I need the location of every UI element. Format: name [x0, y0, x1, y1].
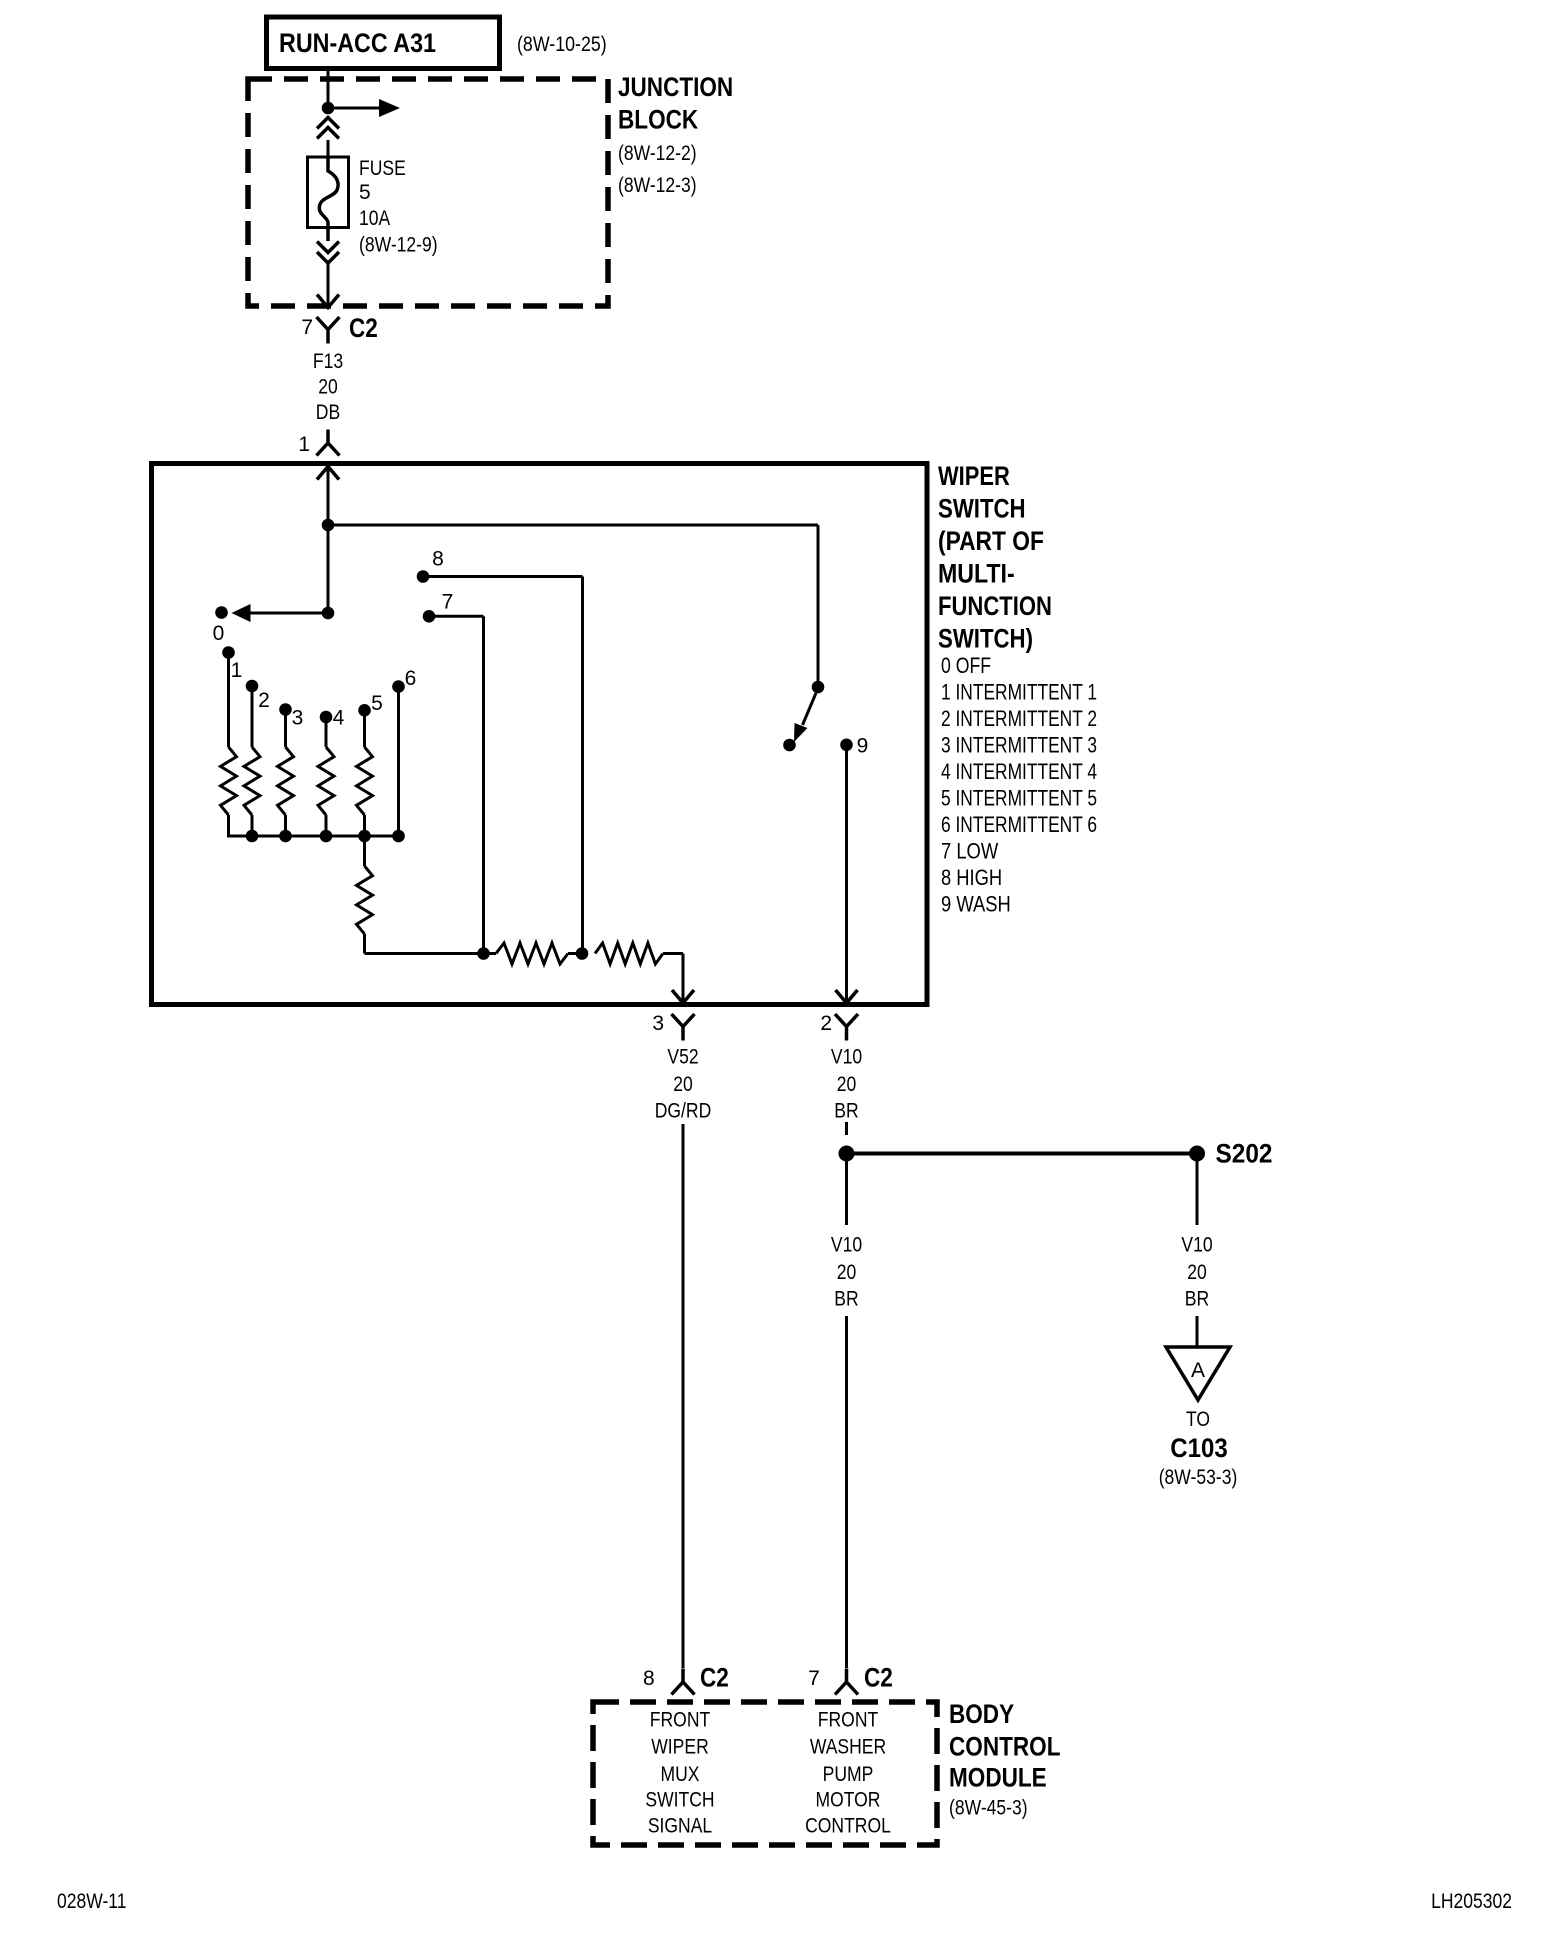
svg-text:2 INTERMITTENT 2: 2 INTERMITTENT 2 — [941, 706, 1097, 731]
svg-text:10A: 10A — [359, 207, 390, 230]
svg-text:BODY: BODY — [949, 1699, 1014, 1729]
svg-text:5 INTERMITTENT 5: 5 INTERMITTENT 5 — [941, 786, 1097, 811]
svg-text:20: 20 — [673, 1073, 693, 1096]
svg-text:FRONT: FRONT — [818, 1709, 879, 1732]
svg-text:2: 2 — [258, 689, 270, 712]
svg-text:(8W-45-3): (8W-45-3) — [949, 1797, 1028, 1820]
svg-text:BR: BR — [834, 1100, 858, 1123]
wire: contact 7 down to low-speed tap — [482, 616, 485, 953]
wire: splice S202 tie — [847, 1152, 1198, 1156]
wire: contact 6 to bus — [397, 692, 400, 836]
connector arrow into wiper switch — [317, 467, 339, 480]
svg-text:V10: V10 — [831, 1046, 862, 1069]
svg-text:6: 6 — [405, 667, 417, 690]
svg-text:F13: F13 — [313, 350, 343, 373]
node: junction block feed — [322, 102, 335, 115]
svg-text:(8W-12-3): (8W-12-3) — [618, 174, 697, 197]
wire: feed across to wash switch — [328, 524, 818, 527]
svg-text:8: 8 — [432, 548, 444, 571]
connector C2 male arrow — [317, 295, 339, 308]
wire: R3 to bus — [284, 815, 287, 836]
wire: contact 5 to resistor R5 — [363, 716, 366, 747]
svg-text:20: 20 — [1187, 1261, 1207, 1284]
wire: R1 to bus — [227, 815, 230, 838]
wire: contact 8 down to high-speed tap — [581, 577, 584, 954]
svg-text:LH205302: LH205302 — [1431, 1890, 1512, 1913]
contact 5 — [358, 704, 371, 717]
svg-text:JUNCTION: JUNCTION — [618, 72, 733, 102]
svg-text:1 INTERMITTENT 1: 1 INTERMITTENT 1 — [941, 680, 1097, 705]
wire: contact 4 to resistor R4 — [325, 723, 328, 747]
wire: bus down to resistor R6 — [363, 836, 366, 866]
node: low-speed tap — [477, 947, 490, 960]
resistor R7 (low) — [496, 943, 568, 964]
svg-text:(8W-10-25): (8W-10-25) — [517, 33, 607, 56]
svg-text:4: 4 — [333, 707, 345, 730]
svg-text:1: 1 — [231, 659, 243, 682]
wire V52: to BCM pin 8 — [682, 1124, 685, 1668]
svg-text:SIGNAL: SIGNAL — [648, 1815, 712, 1838]
svg-text:3: 3 — [652, 1012, 664, 1035]
svg-text:MUX: MUX — [661, 1763, 700, 1786]
resistor R5 (intermittent 5) — [357, 747, 373, 815]
junction block dashed box — [248, 79, 608, 306]
resistor R1 (intermittent 1) — [221, 747, 237, 815]
splice S202 (right node) — [1189, 1146, 1205, 1162]
wire: to fuse — [327, 140, 330, 158]
dashed wire stub to splice — [845, 1122, 848, 1135]
power feed box RUN-ACC A31 — [267, 17, 500, 69]
wire: contact 2 to resistor R2 — [251, 692, 254, 747]
wire: fuse to connector C2 — [327, 264, 330, 308]
svg-text:6 INTERMITTENT 6: 6 INTERMITTENT 6 — [941, 812, 1097, 837]
svg-text:(PART OF: (PART OF — [938, 526, 1044, 556]
contact 6 — [392, 680, 405, 693]
svg-text:DB: DB — [316, 401, 340, 424]
contact 0 (OFF) — [215, 606, 228, 619]
connector chevrons below fuse — [317, 242, 339, 253]
wire: contact 3 to resistor R3 — [284, 715, 287, 747]
wire: pin 1 down to feed node — [327, 466, 330, 522]
svg-text:9: 9 — [857, 735, 869, 758]
svg-text:PUMP: PUMP — [823, 1763, 874, 1786]
resistor R6 (series) — [357, 866, 373, 934]
contact 7 (LOW) — [423, 610, 436, 623]
svg-text:C2: C2 — [349, 313, 378, 343]
svg-text:FUNCTION: FUNCTION — [938, 591, 1052, 621]
svg-text:2: 2 — [820, 1012, 832, 1035]
svg-text:1: 1 — [298, 433, 310, 456]
wiper arm arrow pointing at position 0 — [250, 612, 328, 615]
svg-text:20: 20 — [837, 1261, 857, 1284]
svg-text:DG/RD: DG/RD — [655, 1100, 712, 1123]
svg-text:7 LOW: 7 LOW — [941, 839, 998, 864]
svg-text:9 WASH: 9 WASH — [941, 892, 1011, 917]
svg-text:BR: BR — [1185, 1288, 1209, 1311]
contact 8 (HIGH) — [417, 570, 430, 583]
svg-text:3: 3 — [292, 707, 304, 730]
node: bus junction 4 — [320, 830, 333, 843]
svg-text:5: 5 — [359, 181, 371, 204]
resistor R3 (intermittent 3) — [278, 747, 294, 815]
svg-text:TO: TO — [1186, 1408, 1210, 1431]
connector chevrons above fuse — [317, 118, 339, 129]
node: wash switch arm pivot — [812, 681, 825, 694]
wash switch arm (momentary contact) — [803, 693, 817, 725]
svg-text:MODULE: MODULE — [949, 1763, 1047, 1793]
svg-text:BR: BR — [834, 1288, 858, 1311]
node: bus junction 3 — [279, 830, 292, 843]
wire: R7 to high-speed tap — [568, 952, 582, 955]
svg-text:3 INTERMITTENT 3: 3 INTERMITTENT 3 — [941, 733, 1097, 758]
svg-text:(8W-12-9): (8W-12-9) — [359, 234, 438, 257]
svg-text:7: 7 — [442, 591, 454, 614]
svg-text:(8W-53-3): (8W-53-3) — [1159, 1466, 1238, 1489]
node: switch feed junction — [322, 519, 335, 532]
wiper switch box — [152, 464, 928, 1005]
wire V10: to BCM pin 7 — [845, 1316, 848, 1668]
off-page connector A — [1166, 1347, 1230, 1400]
svg-text:SWITCH: SWITCH — [938, 494, 1026, 524]
contact 9 (WASH) — [840, 739, 853, 752]
contact 1 — [222, 646, 235, 659]
svg-text:0 OFF: 0 OFF — [941, 653, 991, 678]
svg-text:0: 0 — [213, 622, 225, 645]
node: bus junction 6 — [392, 830, 405, 843]
wire: R6 to output run — [363, 934, 366, 954]
svg-text:C103: C103 — [1170, 1433, 1228, 1463]
resistor R8 (high) — [595, 943, 663, 964]
svg-text:A: A — [1191, 1359, 1205, 1382]
node: wiper arm junction — [322, 607, 335, 620]
svg-text:7: 7 — [808, 1667, 820, 1690]
resistor bus — [227, 835, 400, 838]
svg-text:4 INTERMITTENT 4: 4 INTERMITTENT 4 — [941, 759, 1097, 784]
wire: R5 to bus — [363, 815, 366, 836]
svg-text:WIPER: WIPER — [938, 461, 1010, 491]
node: high-speed tap — [576, 947, 589, 960]
wire: RUN-ACC A31 to junction block feed node — [327, 68, 330, 104]
svg-text:8 HIGH: 8 HIGH — [941, 865, 1002, 890]
svg-text:8: 8 — [643, 1667, 655, 1690]
wire: R2 to bus — [251, 815, 254, 836]
svg-text:WIPER: WIPER — [651, 1736, 709, 1759]
wire: R8 to output pin 3 — [663, 952, 683, 955]
wire: output run to node A — [365, 952, 497, 955]
body control module dashed box — [593, 1702, 937, 1845]
svg-text:7: 7 — [301, 316, 313, 339]
svg-text:RUN-ACC A31: RUN-ACC A31 — [279, 28, 436, 58]
svg-text:028W-11: 028W-11 — [57, 1890, 127, 1913]
node: wash contact — [783, 739, 796, 752]
svg-text:20: 20 — [837, 1073, 857, 1096]
svg-text:MOTOR: MOTOR — [816, 1789, 881, 1812]
wire: to off-page connector A — [1196, 1316, 1199, 1347]
wire: contact 1 to resistor R1 — [227, 658, 230, 747]
fuse 5 10A — [308, 157, 349, 228]
wire: contact 8 across — [423, 575, 583, 578]
wire: down to wash switch arm pivot — [817, 525, 820, 681]
svg-text:C2: C2 — [864, 1663, 893, 1693]
svg-text:CONTROL: CONTROL — [949, 1732, 1061, 1762]
svg-text:SWITCH): SWITCH) — [938, 624, 1033, 654]
svg-text:MULTI-: MULTI- — [938, 559, 1015, 589]
wire V10: S202 down to C103 — [1196, 1161, 1199, 1225]
arrow: feed continues right — [334, 107, 381, 110]
svg-text:V10: V10 — [1181, 1234, 1212, 1257]
svg-text:WASHER: WASHER — [810, 1736, 886, 1759]
svg-text:(8W-12-2): (8W-12-2) — [618, 142, 697, 165]
wire: contact 7 across — [429, 615, 484, 618]
resistor R4 (intermittent 4) — [318, 747, 334, 815]
svg-text:CONTROL: CONTROL — [805, 1815, 891, 1838]
svg-text:V10: V10 — [831, 1234, 862, 1257]
svg-text:V52: V52 — [667, 1046, 698, 1069]
svg-text:S202: S202 — [1216, 1139, 1273, 1169]
contact 2 — [246, 680, 259, 693]
svg-text:BLOCK: BLOCK — [618, 105, 699, 135]
resistor R2 (intermittent 2) — [244, 747, 260, 815]
contact 3 — [279, 703, 292, 716]
svg-text:5: 5 — [371, 692, 383, 715]
splice S202 (left node) — [839, 1146, 855, 1162]
wire: R4 to bus — [325, 815, 328, 836]
node: bus junction 2 — [246, 830, 259, 843]
svg-text:20: 20 — [318, 376, 338, 399]
wire: feed node down to wiper arm node — [327, 525, 330, 610]
wire V10: splice down — [845, 1154, 848, 1226]
svg-text:FUSE: FUSE — [359, 157, 406, 180]
connector arrow at pin 3 — [672, 990, 694, 1003]
wire: down to pin 3 — [682, 954, 685, 1002]
svg-text:C2: C2 — [700, 1663, 729, 1693]
wire: wash contact 9 down to pin 2 — [845, 751, 848, 1001]
svg-text:FRONT: FRONT — [650, 1709, 711, 1732]
node: bus junction 5 — [358, 830, 371, 843]
svg-text:SWITCH: SWITCH — [645, 1789, 714, 1812]
connector arrow at pin 2 — [836, 990, 858, 1003]
contact 4 — [320, 711, 333, 724]
